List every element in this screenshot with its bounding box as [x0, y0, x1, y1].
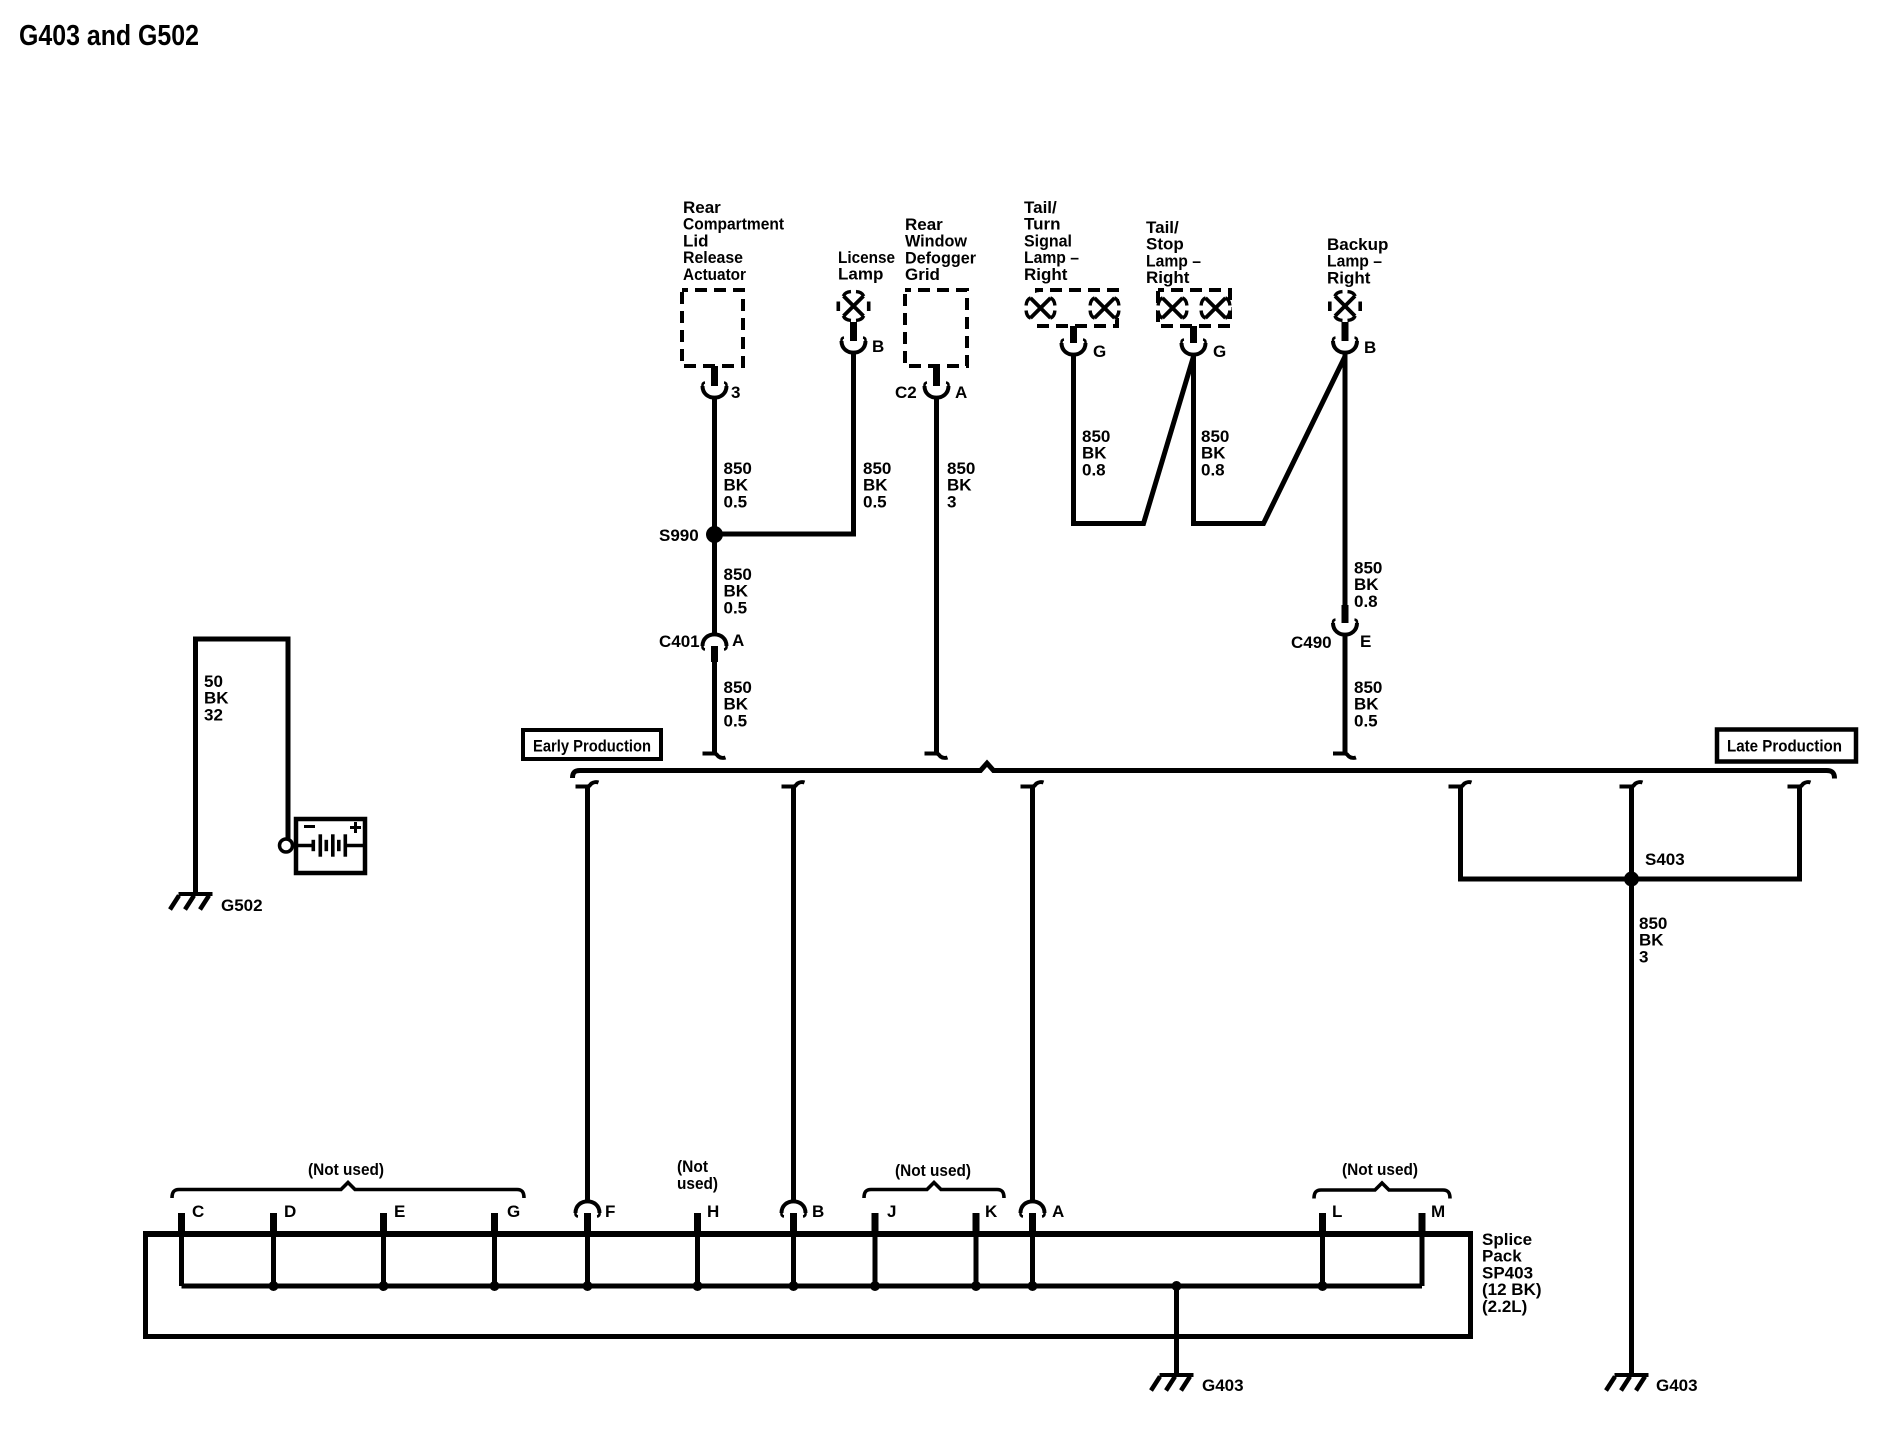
ground G403 (right) — [1606, 1375, 1698, 1395]
production split brace — [573, 763, 1835, 778]
svg-text:J: J — [887, 1202, 896, 1221]
svg-text:C2: C2 — [895, 383, 917, 402]
svg-text:3: 3 — [731, 383, 740, 402]
svg-text:G: G — [507, 1202, 520, 1221]
pin G connector of tail/turn lamp — [1061, 326, 1106, 361]
component: Tail/Stop Lamp - Right (2 bulbs) — [1146, 218, 1232, 326]
svg-text:Lamp: Lamp — [838, 265, 883, 284]
wire: late production split left branch to S403 — [1449, 782, 1627, 879]
splice pack pin K (not used) — [973, 1202, 999, 1286]
component: License Lamp (bulb) — [837, 248, 896, 322]
wire label 50 BK 32 — [204, 672, 229, 724]
svg-text:(Not used): (Not used) — [1342, 1160, 1418, 1179]
svg-text:B: B — [1364, 338, 1376, 357]
wire: early production split to splice pack pin B — [782, 782, 805, 1200]
splice pack label: Splice Pack SP403 (12 BK) (2.2L) — [1482, 1230, 1542, 1316]
component: Rear Window Defogger Grid — [905, 215, 976, 366]
svg-text:C490: C490 — [1291, 633, 1332, 652]
component: Backup Lamp - Right (bulb) — [1327, 235, 1388, 322]
pin G connector of tail/stop lamp — [1181, 326, 1226, 361]
wire label 850 BK 0.5 — [724, 678, 752, 730]
svg-text:Actuator: Actuator — [683, 265, 746, 284]
label: pin H not used — [677, 1157, 718, 1193]
svg-text:(Not used): (Not used) — [895, 1161, 971, 1180]
splice pack pin H (not used) — [694, 1202, 719, 1286]
label box: Early Production — [523, 730, 661, 759]
svg-text:G502: G502 — [221, 896, 263, 915]
svg-text:3: 3 — [1639, 947, 1648, 966]
battery (vehicle battery symbol) — [296, 819, 365, 873]
svg-text:32: 32 — [204, 705, 223, 724]
splice pack internal bus — [182, 1284, 1423, 1289]
brace: pins C-G not used — [172, 1160, 524, 1198]
svg-text:E: E — [394, 1202, 405, 1221]
splice S990 — [659, 526, 723, 545]
wire: early production split to splice pack pin A — [1021, 782, 1044, 1200]
splice pack bus junction dots — [269, 1281, 1328, 1291]
splice pack pin D (not used) — [270, 1202, 296, 1286]
svg-text:S403: S403 — [1645, 850, 1685, 869]
svg-text:G403: G403 — [1202, 1376, 1244, 1395]
wire: battery negative to ground G502 (50 BK 32) — [196, 639, 289, 894]
svg-text:(2.2L): (2.2L) — [1482, 1297, 1527, 1316]
svg-text:Late Production: Late Production — [1727, 737, 1842, 756]
splice pack pin M (not used) — [1419, 1202, 1446, 1286]
node: battery negative terminal ring — [280, 839, 293, 852]
wire: license lamp pin B to S990 — [716, 352, 854, 534]
wire label 850 BK 0.5 — [1354, 678, 1382, 730]
label box: Late Production — [1717, 730, 1856, 762]
ground G502 — [170, 894, 263, 915]
wire: C490 down to production split — [1333, 634, 1356, 758]
svg-text:Right: Right — [1146, 268, 1190, 287]
svg-text:C: C — [192, 1202, 204, 1221]
wire: tail/turn ground to tail/stop pin (850 BK 0.8) — [1074, 354, 1194, 524]
wire: splice pack bus to ground G403 — [1174, 1286, 1179, 1376]
svg-text:C401: C401 — [659, 632, 700, 651]
svg-text:E: E — [1360, 632, 1371, 651]
svg-text:A: A — [955, 383, 967, 402]
wire label 850 BK 3 — [1639, 914, 1667, 966]
component: Rear Compartment Lid Release Actuator — [682, 198, 784, 366]
wire: defogger pin A down to early production split — [925, 397, 948, 758]
svg-text:B: B — [812, 1202, 824, 1221]
wire: late production split center branch to S403 — [1620, 782, 1643, 879]
svg-text:S990: S990 — [659, 526, 699, 545]
wire label 850 BK 0.5 — [724, 459, 752, 511]
svg-text:B: B — [872, 337, 884, 356]
splice pack pin B with connector — [781, 1201, 824, 1286]
svg-text:Right: Right — [1024, 265, 1068, 284]
splice S403 — [1624, 850, 1685, 887]
wire: S403 down to ground G403 (850 BK 3) — [1629, 879, 1634, 1376]
svg-text:0.8: 0.8 — [1354, 592, 1378, 611]
title G403 and G502 — [19, 20, 199, 52]
svg-text:A: A — [732, 631, 744, 650]
wire: S990 down to C401 — [712, 534, 717, 635]
connector C401 pin A — [659, 631, 744, 662]
splice pack SP403 outer box — [143, 1234, 1473, 1337]
ground G403 (left, splice pack) — [1151, 1375, 1244, 1395]
splice pack pin G (not used) — [491, 1202, 520, 1286]
svg-text:0.5: 0.5 — [863, 492, 887, 511]
svg-text:0.5: 0.5 — [724, 711, 748, 730]
wire label 850 BK 3 — [947, 459, 975, 511]
brace: pins J-K not used — [864, 1161, 1004, 1198]
splice pack pin F with connector — [575, 1201, 615, 1286]
wire label 850 BK 0.5 — [863, 459, 891, 511]
svg-text:K: K — [985, 1202, 998, 1221]
splice pack pin A with connector — [1020, 1201, 1064, 1286]
splice pack pin E (not used) — [380, 1202, 405, 1286]
wire: early production split to splice pack pin F — [576, 782, 599, 1200]
wire label 850 BK 0.8 — [1082, 427, 1110, 479]
svg-text:G: G — [1093, 342, 1106, 361]
svg-text:0.5: 0.5 — [724, 598, 748, 617]
svg-text:0.8: 0.8 — [1082, 460, 1106, 479]
svg-text:Grid: Grid — [905, 265, 940, 284]
splice pack pin J (not used) — [872, 1202, 897, 1286]
wire label 850 BK 0.8 — [1201, 427, 1229, 479]
svg-text:G: G — [1213, 342, 1226, 361]
brace: pins L-M not used — [1314, 1160, 1450, 1199]
pin B connector of backup lamp — [1333, 322, 1376, 357]
connector C490 pin E — [1291, 605, 1371, 652]
wire: C401 down to early production split — [703, 660, 726, 758]
pin 3 connector of actuator — [702, 366, 740, 402]
svg-text:L: L — [1332, 1202, 1342, 1221]
svg-text:D: D — [284, 1202, 296, 1221]
wire label 850 BK 0.8 — [1354, 559, 1382, 611]
svg-text:F: F — [605, 1202, 615, 1221]
svg-text:3: 3 — [947, 492, 956, 511]
svg-text:used): used) — [677, 1174, 718, 1193]
wire label 850 BK 0.5 — [724, 565, 752, 617]
wire: actuator pin 3 down to splice S990 — [712, 397, 717, 534]
splice pack pin L (not used) — [1319, 1202, 1342, 1286]
svg-text:Right: Right — [1327, 268, 1371, 287]
pin B connector of license lamp — [841, 322, 884, 356]
wire: backup lamp pin B down to C490 — [1343, 352, 1348, 607]
svg-text:0.8: 0.8 — [1201, 460, 1225, 479]
svg-text:(Not used): (Not used) — [308, 1160, 384, 1179]
svg-text:M: M — [1431, 1202, 1445, 1221]
wire: tail/stop ground to backup lamp pin (850 BK 0.8) — [1194, 354, 1346, 524]
svg-text:Early Production: Early Production — [533, 737, 651, 756]
svg-text:G403 and G502: G403 and G502 — [19, 20, 199, 52]
svg-text:H: H — [707, 1202, 719, 1221]
splice pack pin C (not used) — [178, 1202, 204, 1286]
svg-text:G403: G403 — [1656, 1376, 1698, 1395]
svg-text:0.5: 0.5 — [724, 492, 748, 511]
svg-text:0.5: 0.5 — [1354, 711, 1378, 730]
connector C2 pin A of defogger — [895, 366, 967, 402]
wire: late production split right branch to S403 — [1637, 782, 1811, 879]
svg-text:A: A — [1052, 1202, 1064, 1221]
component: Tail/Turn Signal Lamp - Right (2 bulbs) — [1024, 198, 1121, 326]
